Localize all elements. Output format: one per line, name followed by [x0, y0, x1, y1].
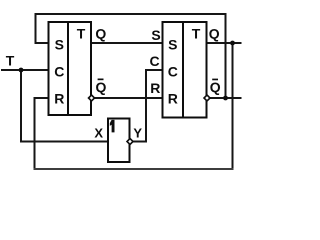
svg-text:Q: Q: [209, 26, 220, 42]
wire: top feedback (FF2 Q-bar to FF1 S), horizontal run: [36, 13, 226, 15]
flip-flop FF1 body: [49, 22, 92, 115]
pin: FF1 Q-bar output diamond: [89, 95, 95, 101]
pin: FF2 Q-bar output diamond: [204, 95, 210, 101]
wire: FF1 S input stub: [36, 42, 49, 44]
flip-flop FF2 divider: [182, 21, 184, 118]
svg-text:S: S: [168, 36, 177, 52]
svg-text:S: S: [55, 36, 64, 52]
wire: FF2 Q-bar output lead: [207, 97, 241, 99]
svg-text:T: T: [6, 52, 15, 68]
wire: vertical from T junction down to X wire: [20, 70, 22, 142]
svg-text:Y: Y: [133, 126, 142, 141]
svg-text:C: C: [150, 53, 160, 69]
svg-text:Q: Q: [210, 79, 221, 95]
label: FF1 Q-bar overbar: [98, 79, 104, 81]
svg-text:X: X: [94, 126, 103, 141]
flip-flop FF1 divider: [67, 21, 69, 116]
svg-text:Q: Q: [96, 79, 107, 95]
svg-text:C: C: [54, 63, 64, 79]
delay element body (1): [108, 119, 130, 163]
wire: FF1 Q output to FF2 S input: [91, 42, 162, 44]
node: junction dot on FF2 Q-bar lead: [223, 96, 228, 101]
wire: right vertical drop from top wire to FF2 Q-bar node: [225, 14, 227, 98]
wire: left vertical drop from top wire to S1: [35, 14, 37, 43]
wire: right vertical from FF2 Q node down to bottom run: [232, 43, 234, 169]
flip-flop FF2 body: [163, 22, 207, 118]
svg-text:R: R: [168, 90, 178, 106]
label: delay element value 1: [110, 120, 115, 132]
wire: vertical Y up to FF2 C level: [145, 70, 147, 142]
svg-text:C: C: [168, 63, 178, 79]
wire: left vertical from FF1 R down to bottom run: [34, 98, 36, 169]
svg-text:R: R: [54, 90, 64, 106]
node: junction dot on T input: [19, 68, 24, 73]
svg-text:T: T: [192, 25, 201, 41]
pin: delay element Y output diamond: [127, 139, 133, 145]
svg-text:R: R: [150, 80, 160, 96]
svg-text:T: T: [77, 25, 86, 41]
node: junction dot on FF2 Q lead: [230, 41, 235, 46]
wire: FF2 Q output lead: [207, 42, 241, 44]
wire: T clock input to FF1 C: [2, 69, 49, 71]
wire: FF2 C input stub: [146, 69, 162, 71]
svg-text:S: S: [151, 27, 160, 43]
wire: bottom feedback run (FF2 Q to FF1 R): [34, 168, 234, 170]
svg-text:Q: Q: [95, 26, 106, 42]
wire: FF1 Q-bar output to FF2 R input: [92, 97, 163, 99]
wire: FF1 R input stub: [35, 97, 49, 99]
wire: Y output stub from delay element: [129, 141, 146, 143]
wire: X input run into delay element: [21, 141, 108, 143]
label: FF2 Q-bar overbar: [212, 79, 218, 81]
